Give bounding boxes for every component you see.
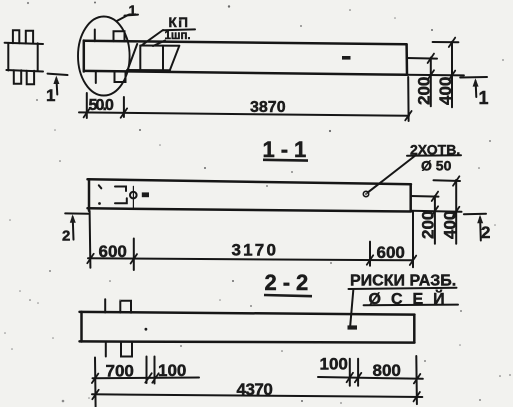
small section bottom lug 2 [27, 71, 34, 85]
plan left lug tick (bottom) [95, 71, 97, 83]
2-2 witness left [94, 358, 97, 407]
2-2 chain dim line right (100/800) [318, 377, 423, 379]
underline 2XOTB [407, 154, 461, 157]
plan dim line 500/3870 [79, 112, 409, 115]
plan dim line 200 (vertical) [430, 58, 432, 107]
2-2 witness 146 [146, 357, 148, 384]
plan right end: mid witness line [407, 57, 437, 60]
svg-text:600: 600 [99, 242, 127, 261]
svg-text:2: 2 [62, 228, 70, 245]
dot in 2-2 beam [145, 328, 148, 331]
2-2 total dim line 4370 [92, 394, 422, 397]
riska mark in plan beam [342, 56, 351, 60]
riska leader [350, 290, 353, 326]
view label 1-1 underline [263, 159, 308, 162]
1-1 dim line 200 [434, 196, 436, 244]
bearing plate (KP) outline [127, 46, 179, 71]
riski label underline 1 [349, 288, 457, 289]
svg-text:4370: 4370 [237, 380, 273, 399]
ticks 1-1 bottom dims [87, 254, 416, 265]
embedded bracket upper [115, 187, 126, 192]
ticks 2-2 dims [92, 373, 420, 402]
svg-text:РИСКИ РАЗБ.: РИСКИ РАЗБ. [350, 273, 456, 290]
hole (right) circle [363, 191, 368, 196]
witness 3870 right [407, 77, 409, 121]
2-2 chain dim line left (700/100) [93, 377, 200, 380]
small end cross-section: square body [5, 43, 43, 72]
view label 2-2 underline [264, 295, 312, 296]
small section bottom lug 1 [14, 70, 21, 83]
svg-text:Ø 50: Ø 50 [421, 158, 452, 174]
hole (left) circle [130, 192, 137, 199]
section marker 2 (right) arrowhead [477, 215, 483, 223]
2-2 top lug [120, 301, 131, 313]
small section top lug 1 [13, 30, 19, 43]
svg-text:2ХОТВ.: 2ХОТВ. [410, 141, 460, 157]
svg-text:50.0: 50.0 [89, 97, 115, 114]
1-1 top witness [434, 179, 461, 182]
plan top lug [114, 31, 125, 41]
svg-text:100: 100 [320, 355, 348, 374]
svg-text:2: 2 [481, 223, 490, 242]
section marker 2 (right) stem [479, 218, 482, 241]
beam outline 1-1 [88, 179, 412, 211]
svg-text:ØСЕЙ: ØСЕЙ [369, 289, 455, 308]
section marker 1 (right) arrow stem [475, 81, 478, 97]
2-2 witness 358 [357, 359, 359, 386]
svg-text:1-1: 1-1 [263, 137, 313, 162]
2-2 witness 154 [154, 357, 156, 384]
svg-text:1: 1 [129, 2, 137, 18]
svg-text:800: 800 [373, 361, 401, 380]
1-1 dim line 600/3170/600 [88, 258, 413, 260]
svg-text:1шп.: 1шп. [165, 30, 191, 42]
riska mark on 2-2 beam [348, 325, 358, 329]
2-2 top lug tick [104, 299, 106, 312]
section marker 2 (left) bar [65, 212, 88, 214]
2-2 witness right [415, 356, 418, 404]
section marker 1 (right) arrowhead [473, 78, 479, 86]
ticks 500/3870 [84, 108, 412, 120]
svg-text:200: 200 [415, 77, 434, 105]
section marker 1 (right) bar [460, 76, 487, 79]
beam outline (plan view) [84, 41, 407, 75]
2-2 bottom lug tick [105, 343, 107, 357]
2-2 bottom lug [121, 343, 132, 357]
2-2 witness 350 [349, 359, 351, 386]
1-1 right: mid witness [411, 195, 439, 198]
section marker 1 (left) arrowhead [53, 76, 59, 84]
svg-text:600: 600 [377, 243, 405, 262]
section marker 2 (right) bar [464, 213, 486, 215]
section marker 2 (left) arrowhead [70, 214, 76, 222]
svg-text:3870: 3870 [250, 99, 286, 116]
svg-text:1: 1 [46, 86, 55, 105]
section marker 1 (left of plan) bar [48, 74, 68, 75]
hole axis line [132, 186, 134, 208]
small section top lug 2 [26, 31, 33, 44]
plan bottom witness line [405, 74, 464, 77]
KP label underline [163, 28, 195, 31]
detail ellipse callout [78, 17, 130, 96]
plan bottom lug [115, 71, 126, 82]
svg-text:700: 700 [106, 362, 134, 381]
witness right 500 [123, 97, 125, 117]
svg-text:3170: 3170 [232, 241, 279, 260]
anchor plate mark (filled) [142, 192, 149, 197]
svg-text:2-2: 2-2 [265, 270, 315, 295]
witness lines 1-1 dims [89, 211, 92, 268]
svg-text:200: 200 [419, 211, 438, 239]
svg-text:100: 100 [158, 361, 186, 380]
witness left 500 [86, 93, 88, 118]
1-1 dim line 400 [455, 180, 457, 244]
plan left lug tick (top) [94, 30, 96, 42]
leader to detail label 1 [117, 15, 129, 21]
embedded mark small dash [99, 185, 102, 188]
ticks 1-1 right dims [432, 176, 460, 216]
ticks plan right dims [428, 38, 456, 80]
svg-text:400: 400 [441, 211, 460, 239]
shp label leader [153, 41, 165, 47]
svg-text:КП: КП [169, 15, 190, 30]
KP label leader [141, 30, 163, 46]
1-1 bottom witness [411, 211, 462, 212]
plan top witness for 400 [433, 41, 459, 43]
svg-text:1: 1 [479, 88, 489, 108]
svg-text:400: 400 [436, 77, 455, 105]
section marker 1 (left) arrow stem [55, 79, 58, 95]
beam outline 2-2 [80, 312, 415, 343]
plan dim line 400 (vertical) [451, 42, 453, 107]
leader 2 holes label [368, 155, 417, 193]
riski label underline 2 [364, 304, 458, 307]
embedded bracket lower [115, 198, 127, 203]
embedded mark dot [98, 202, 101, 205]
section marker 2 (left) stem [72, 217, 75, 240]
cut slant line at detail [127, 44, 137, 72]
